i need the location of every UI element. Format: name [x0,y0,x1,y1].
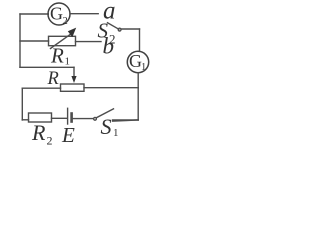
wire bottom left stub [22,119,28,121]
wire right rail upper [139,29,141,51]
rheostat arrow of R1 [51,28,77,49]
svg-text:R: R [47,69,59,89]
svg-text:G2: G2 [50,4,68,27]
svg-text:R2: R2 [31,120,53,148]
resistor R2 [29,113,52,122]
wire right of R track [84,87,138,89]
wire S2 common to right corner [121,28,139,30]
resistor R (potentiometer track) [61,84,85,91]
switch S1 contact dot [94,117,97,120]
switch S2 pivot hook [118,28,121,31]
galvanometer G2 [48,3,70,25]
wire bottom right corner [113,119,139,121]
wire left rail lower [21,88,23,120]
svg-text:G1: G1 [129,51,146,73]
wire R1 to node b [76,41,102,43]
wire battery to S1 [73,118,94,120]
wire S1 to right rail [113,120,139,121]
galvanometer G1 [127,51,148,72]
switch S2 blade [108,23,119,30]
wire left rail upper [19,14,21,67]
wire middle left to R1 [20,40,49,42]
battery E short plate [70,114,73,122]
slider arrow of R [71,67,76,83]
resistor R1 (rheostat box) [49,36,76,45]
battery E long plate [67,108,69,124]
svg-text:E: E [61,123,75,147]
wire top left to G2 [20,13,48,15]
svg-text:R1: R1 [50,44,70,68]
wire G2 to node a [70,13,98,15]
switch S1 blade [96,109,113,118]
svg-text:S1: S1 [101,114,119,139]
wire slider feed [20,66,74,68]
wire right rail lower [137,73,139,120]
wire left of R track [22,87,60,89]
wire R2 to battery [52,117,67,119]
